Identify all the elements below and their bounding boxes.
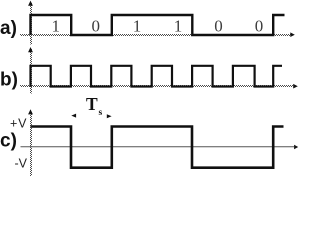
svg-text:0: 0 bbox=[214, 17, 223, 36]
row a vertical axis arrowhead bbox=[28, 1, 33, 6]
waveform b: clock bbox=[31, 66, 283, 87]
Ts left arrowhead bbox=[71, 114, 76, 118]
row c zero axis arrowhead bbox=[294, 145, 298, 150]
row c vertical axis arrowhead bbox=[28, 109, 33, 114]
svg-text:a): a) bbox=[0, 18, 17, 39]
row b vertical axis arrowhead bbox=[28, 47, 33, 52]
svg-text:1: 1 bbox=[51, 17, 60, 36]
svg-text:0: 0 bbox=[91, 17, 100, 36]
row b vertical axis bbox=[30, 48, 32, 94]
svg-text:1: 1 bbox=[174, 17, 183, 36]
svg-text:1: 1 bbox=[133, 17, 142, 36]
svg-text:b): b) bbox=[0, 69, 18, 90]
row a horizontal axis bbox=[20, 34, 291, 36]
svg-text:-V: -V bbox=[15, 157, 28, 171]
row c zero axis line bbox=[21, 146, 295, 148]
row a horizontal axis arrowhead bbox=[290, 32, 295, 37]
row a vertical axis bbox=[30, 2, 32, 45]
svg-text:c): c) bbox=[0, 130, 17, 151]
row b horizontal axis arrowhead bbox=[293, 84, 298, 89]
row c vertical axis bbox=[30, 111, 32, 176]
svg-text:+V: +V bbox=[10, 117, 27, 131]
waveform c: bipolar NRZ signal bbox=[31, 127, 284, 168]
Ts right arrowhead bbox=[107, 114, 112, 118]
waveform a: data signal 1 0 1 1 0 0 bbox=[31, 15, 285, 35]
svg-text:0: 0 bbox=[255, 17, 264, 36]
row b horizontal axis bbox=[20, 85, 293, 87]
svg-text:Ts: Ts bbox=[86, 94, 102, 118]
